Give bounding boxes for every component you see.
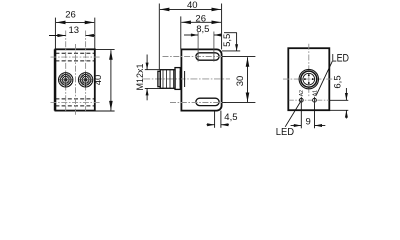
svg-text:9: 9 [306, 116, 311, 127]
svg-text:40: 40 [93, 75, 104, 86]
svg-text:8,5: 8,5 [196, 24, 209, 35]
svg-text:5,5: 5,5 [222, 34, 233, 47]
svg-text:LED: LED [332, 52, 350, 64]
svg-text:40: 40 [187, 0, 198, 11]
svg-text:A1: A1 [312, 90, 318, 96]
svg-text:M12x1: M12x1 [135, 63, 145, 90]
svg-text:LED: LED [276, 127, 294, 138]
svg-text:13: 13 [69, 25, 80, 36]
svg-text:4,5: 4,5 [224, 112, 237, 123]
svg-text:30: 30 [235, 76, 246, 87]
svg-text:A2: A2 [299, 90, 305, 96]
svg-text:26: 26 [65, 10, 76, 21]
svg-text:26: 26 [195, 13, 206, 24]
svg-text:6,5: 6,5 [333, 75, 344, 88]
